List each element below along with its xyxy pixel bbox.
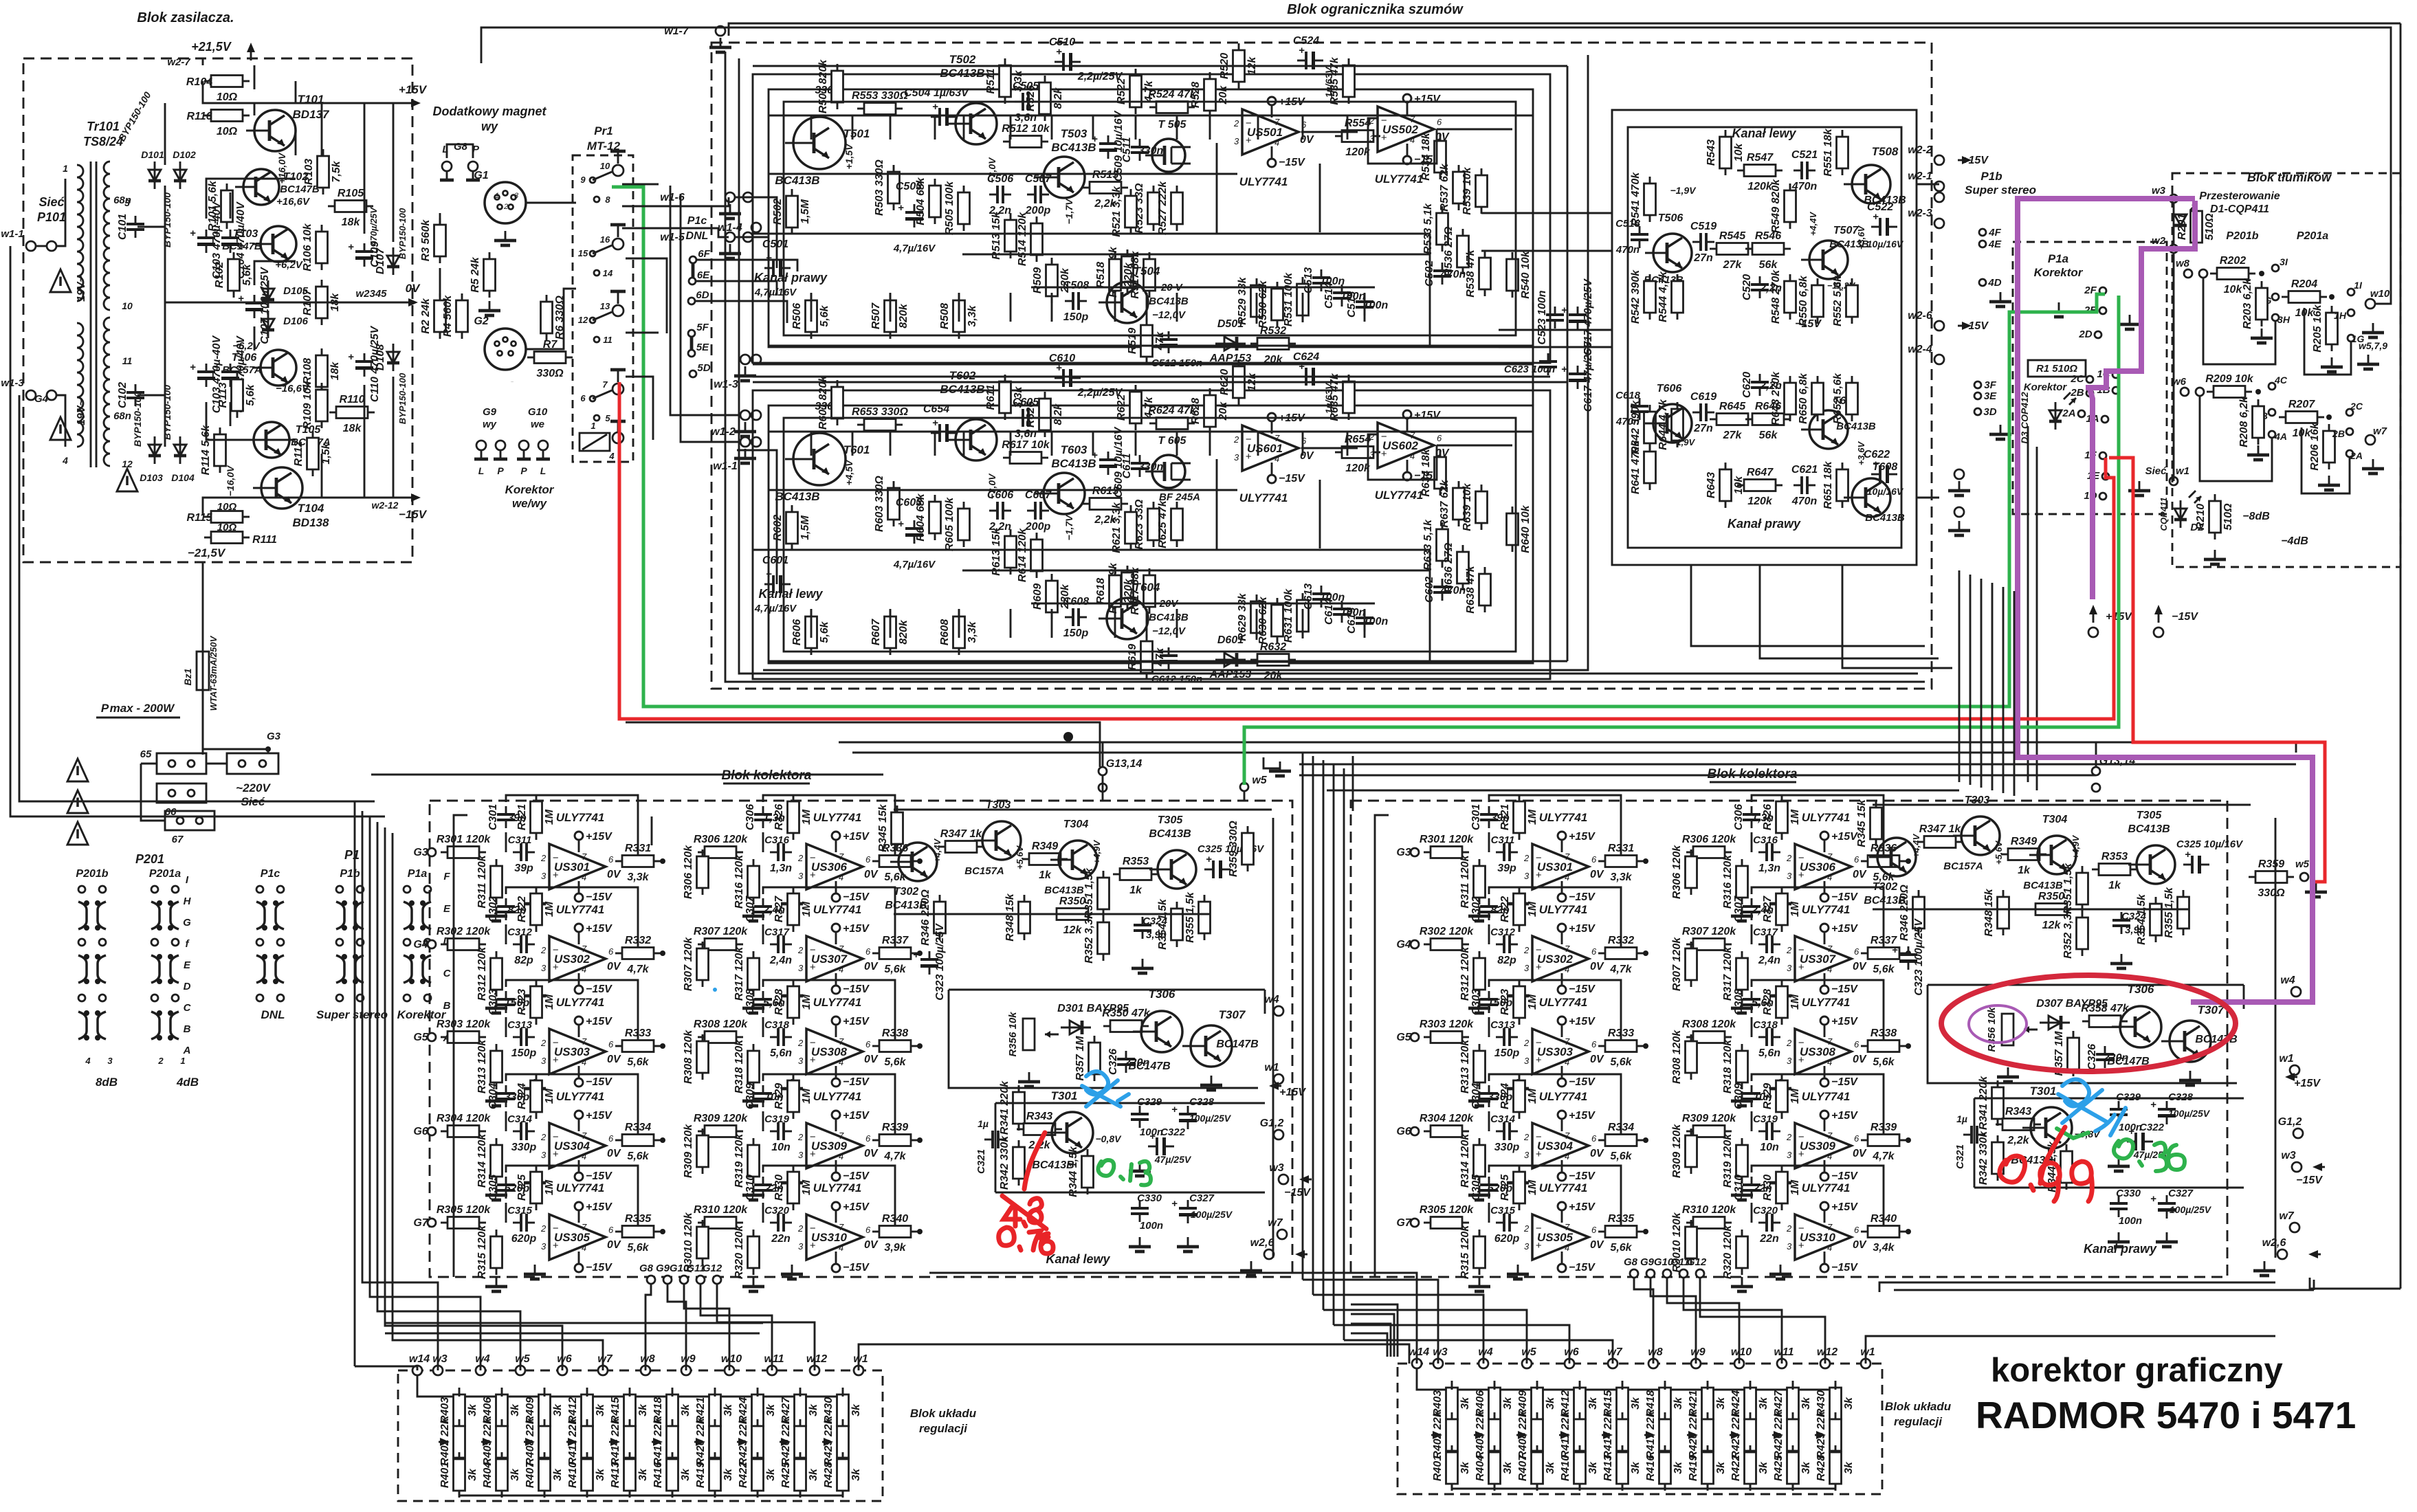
ground stage US301	[1468, 907, 1490, 921]
svg-text:+: +	[190, 227, 196, 239]
svg-text:0V: 0V	[864, 1054, 879, 1065]
wire w1-5 link	[734, 236, 769, 238]
svg-text:+3,6V: +3,6V	[1856, 225, 1866, 250]
resistor R522	[1116, 69, 1155, 114]
svg-text:R352 3,3k: R352 3,3k	[1083, 912, 1095, 964]
svg-text:Blok kolektora: Blok kolektora	[722, 768, 812, 783]
op-amp US310	[1786, 1201, 1867, 1274]
svg-text:T606: T606	[1657, 383, 1682, 394]
transistor T305	[1149, 850, 1196, 889]
wire stub low 5-1470	[1010, 293, 1012, 322]
resistor R620	[1219, 359, 1258, 405]
resistor R426	[1773, 1410, 1799, 1458]
svg-text:1M: 1M	[544, 1088, 555, 1104]
svg-text:R351 1,5k: R351 1,5k	[1083, 867, 1095, 919]
pin w9 regulacja	[681, 1366, 691, 1375]
svg-text:R553 330Ω: R553 330Ω	[852, 90, 908, 102]
resistor R311 shunt	[476, 854, 503, 908]
wire r103 up	[321, 103, 323, 155]
pin w7 right kol	[2290, 1223, 2299, 1232]
pin 1H	[2348, 309, 2354, 316]
svg-text:R545: R545	[1719, 230, 1746, 242]
pin 3E	[1974, 392, 1981, 399]
svg-text:7: 7	[1565, 1036, 1570, 1047]
pin w12 regulacja	[1820, 1359, 1830, 1368]
svg-text:T502: T502	[949, 53, 976, 66]
svg-text:2,4n: 2,4n	[769, 955, 792, 966]
svg-text:regulacji: regulacji	[919, 1422, 968, 1435]
resistor R110	[329, 394, 375, 434]
svg-text:R354 1,5k: R354 1,5k	[2136, 893, 2148, 945]
svg-text:−15V: −15V	[1569, 1262, 1596, 1274]
svg-text:2: 2	[540, 1038, 547, 1048]
svg-text:−: −	[1798, 852, 1805, 864]
svg-text:+: +	[1536, 869, 1542, 881]
svg-text:C520: C520	[1741, 274, 1753, 300]
svg-text:R544 4,7k: R544 4,7k	[1657, 271, 1669, 322]
resistor R429	[1815, 1410, 1842, 1458]
svg-text:R325: R325	[516, 1174, 528, 1201]
wire regulacja col 2	[544, 1395, 546, 1397]
svg-text:T302: T302	[1873, 881, 1898, 893]
svg-text:2: 2	[1523, 945, 1530, 955]
svg-text:7: 7	[839, 1222, 844, 1232]
svg-text:10Ω: 10Ω	[217, 522, 237, 533]
svg-text:w8: w8	[2176, 258, 2190, 269]
capacitor C308	[1733, 989, 1774, 1015]
junction dot mid sheet	[1063, 732, 1073, 742]
svg-text:WTAT-63mA/250V: WTAT-63mA/250V	[208, 635, 219, 711]
svg-text:BYP150-100: BYP150-100	[162, 192, 173, 247]
resistor R343	[1017, 1111, 1062, 1151]
svg-text:−: −	[810, 944, 816, 956]
pin w3 right kol	[2292, 1162, 2302, 1172]
resistor R306 120k	[1682, 834, 1736, 858]
resistor R538	[1465, 249, 1491, 297]
resistor R505	[944, 181, 970, 235]
ground R356	[1018, 1072, 1040, 1087]
capacitor C607	[1025, 489, 1052, 533]
wire -15V rail	[203, 498, 412, 515]
relay Pr1 coil	[580, 433, 610, 451]
junction out US308	[917, 1043, 923, 1049]
svg-text:0V: 0V	[1590, 869, 1604, 880]
svg-text:7: 7	[839, 944, 844, 954]
svg-text:R401: R401	[1432, 1455, 1444, 1481]
resistor R351	[2062, 863, 2088, 914]
resistor R612	[1002, 439, 1050, 464]
pin G7	[1411, 1219, 1419, 1227]
svg-text:47µ/25V: 47µ/25V	[1154, 1154, 1192, 1165]
capacitor C603	[898, 518, 923, 544]
svg-text:R332: R332	[1608, 935, 1634, 946]
svg-text:4,7k: 4,7k	[626, 964, 649, 975]
svg-text:3k: 3k	[1459, 1461, 1471, 1474]
junction out US301	[660, 858, 665, 864]
svg-text:R115: R115	[186, 512, 212, 524]
capacitor C507	[1025, 173, 1052, 216]
resistor R651 18k	[1822, 460, 1848, 509]
svg-text:R425: R425	[1773, 1454, 1785, 1481]
ground stage US306	[1731, 907, 1753, 921]
svg-text:3: 3	[798, 871, 804, 881]
wire -15V node bus	[1974, 1187, 2244, 1189]
transistor T506	[1645, 234, 1692, 272]
pin -15V p1a	[2154, 627, 2163, 637]
resistor R312 shunt	[476, 946, 503, 1001]
svg-text:R321: R321	[516, 804, 528, 830]
pin w3 regulacja	[1433, 1359, 1443, 1368]
resistor R515	[1083, 169, 1128, 210]
svg-text:200p: 200p	[1025, 205, 1051, 216]
jack L	[440, 162, 454, 180]
wire red trace 2 (1F to w5 of right channel)	[2109, 458, 2325, 882]
svg-text:+4,4V: +4,4V	[932, 838, 942, 863]
svg-text:w3: w3	[2152, 185, 2166, 197]
svg-text:5E: 5E	[696, 342, 709, 353]
capacitor C307	[1733, 896, 1774, 922]
svg-text:3: 3	[1234, 136, 1239, 146]
ground 3D	[1989, 425, 2011, 439]
wire feedback US305	[1489, 1166, 1621, 1232]
svg-text:−1,7V: −1,7V	[1063, 198, 1074, 225]
pin w1 regulacja	[1861, 1359, 1870, 1368]
svg-text:R539 10k: R539 10k	[1461, 166, 1473, 214]
svg-text:R209 10k: R209 10k	[2205, 373, 2253, 385]
wire 67 left	[141, 764, 165, 821]
svg-text:1M: 1M	[801, 1088, 813, 1104]
svg-text:3: 3	[541, 1150, 547, 1160]
resistor R402	[1432, 1410, 1458, 1458]
wire stub 5-1470	[1010, 115, 1012, 140]
svg-text:120k: 120k	[1345, 146, 1371, 158]
svg-text:+15V: +15V	[1831, 1016, 1858, 1027]
resistor R419	[1688, 1445, 1727, 1491]
resistor R638	[1465, 565, 1491, 613]
svg-text:1: 1	[63, 163, 68, 174]
pin w2-2	[1934, 155, 1944, 165]
wire green trace 1 (Pr1 to P1a 2F)	[612, 187, 2105, 707]
svg-text:3k: 3k	[1630, 1397, 1642, 1410]
svg-text:Korektor: Korektor	[505, 483, 555, 496]
resistor R340	[1861, 1213, 1906, 1254]
transistor T507	[1801, 241, 1848, 279]
svg-text:R324: R324	[516, 1083, 528, 1109]
svg-text:3: 3	[1524, 963, 1530, 973]
svg-text:1H: 1H	[2334, 310, 2347, 321]
svg-text:R346 220Ω: R346 220Ω	[920, 889, 931, 946]
capacitor C519	[1690, 221, 1717, 264]
svg-text:T106: T106	[232, 352, 257, 364]
resistor R307 120k right	[1671, 937, 1697, 991]
svg-text:+: +	[1536, 961, 1542, 973]
diode D106	[262, 311, 274, 338]
resistor R422	[738, 1452, 777, 1498]
svg-text:R326: R326	[1762, 804, 1774, 830]
pin 2C	[2346, 409, 2353, 416]
svg-text:R308 120k: R308 120k	[694, 1019, 748, 1030]
resistor R209	[2205, 373, 2253, 398]
svg-text:Blok zasilacza.: Blok zasilacza.	[137, 10, 234, 25]
ground w1-7	[709, 38, 731, 52]
wire T306 cell frame	[1928, 985, 2237, 1083]
svg-text:2B: 2B	[2332, 428, 2345, 439]
wire stub low 6-1395	[958, 609, 960, 638]
svg-text:R508: R508	[939, 303, 951, 329]
svg-text:+15V: +15V	[1569, 1110, 1596, 1122]
svg-text:7: 7	[1827, 1036, 1833, 1047]
pin G3	[1411, 848, 1419, 856]
svg-text:ULY7741: ULY7741	[1539, 811, 1588, 824]
svg-text:3k: 3k	[1800, 1461, 1812, 1474]
svg-text:w1-3: w1-3	[1, 377, 24, 389]
svg-text:39p: 39p	[514, 863, 533, 874]
svg-text:w7: w7	[597, 1353, 612, 1365]
svg-text:R316 120k: R316 120k	[733, 854, 745, 909]
resistor R408	[525, 1417, 551, 1465]
svg-text:R356 10k: R356 10k	[1986, 1007, 1998, 1052]
svg-text:R309 120k: R309 120k	[1682, 1113, 1736, 1124]
svg-text:5,6k: 5,6k	[1610, 1056, 1632, 1068]
wire w1 right to edge bus	[1866, 1336, 2275, 1364]
svg-text:R506: R506	[791, 303, 803, 329]
capacitor C610	[1055, 362, 1081, 387]
svg-text:C303: C303	[487, 989, 499, 1015]
svg-text:3k: 3k	[595, 1468, 606, 1481]
svg-text:R312 120k: R312 120k	[476, 946, 488, 1001]
wire fb join US305	[1488, 1203, 1490, 1223]
svg-text:−: −	[1536, 944, 1542, 956]
svg-text:R112: R112	[293, 441, 305, 466]
resistor R632	[1250, 641, 1296, 682]
svg-text:R105: R105	[338, 188, 364, 199]
svg-text:C323 100µ/25V: C323 100µ/25V	[934, 923, 946, 1001]
resistor R554	[1335, 118, 1380, 158]
wire top bus T section	[894, 809, 1272, 811]
resistor R331	[615, 843, 661, 883]
pin w4 regulacja	[476, 1366, 485, 1375]
resistor R113	[217, 373, 256, 418]
wire stub 5-1295	[890, 115, 892, 140]
pot R356	[2002, 1014, 2038, 1045]
svg-text:R547: R547	[1747, 152, 1774, 164]
wire stub 5-1360	[934, 115, 936, 140]
wire regulacja col 6	[1707, 1388, 1709, 1390]
resistor R338	[872, 1027, 918, 1068]
svg-text:C316: C316	[1753, 834, 1778, 846]
op-amp US502	[1369, 93, 1450, 166]
wire regulacja col 5	[672, 1395, 674, 1397]
wire second bus T section	[894, 913, 1210, 915]
wire stub 6-1652	[1135, 432, 1137, 456]
DIN socket G1	[485, 182, 526, 223]
svg-text:6: 6	[1854, 946, 1859, 957]
wire w1 left to right block	[859, 1344, 1409, 1370]
wire c100 down	[230, 402, 232, 426]
op-amp US303	[1523, 1016, 1604, 1088]
svg-text:18k: 18k	[329, 362, 341, 381]
svg-text:R320 120k: R320 120k	[733, 1225, 745, 1279]
ground + input US308	[1769, 1079, 1791, 1093]
svg-text:1,5M: 1,5M	[799, 199, 811, 224]
svg-text:6: 6	[1591, 946, 1597, 957]
wire frame channel Kana&#322; lewy	[753, 390, 1550, 679]
resistor R406	[1475, 1381, 1514, 1426]
svg-text:P201b: P201b	[76, 868, 108, 880]
svg-text:R404: R404	[1475, 1455, 1486, 1481]
wire stub 6-1402	[963, 432, 965, 456]
pin 3H	[2272, 314, 2279, 321]
wire rail d 5	[769, 173, 1237, 175]
svg-text:R613 15k: R613 15k	[991, 527, 1002, 575]
svg-text:Bz1: Bz1	[182, 668, 193, 685]
svg-text:3: 3	[1369, 449, 1375, 460]
capacitor C503	[898, 202, 923, 227]
pin G13,14 right b	[2092, 783, 2100, 792]
resistor R535	[1329, 56, 1355, 104]
junction out US302	[660, 950, 665, 956]
pin 4E	[1979, 241, 1986, 247]
svg-text:BC413B: BC413B	[940, 383, 984, 396]
resistor R318 shunt	[1722, 1039, 1748, 1093]
resistor R202	[2210, 255, 2255, 296]
svg-text:82p: 82p	[514, 955, 533, 966]
svg-text:3k: 3k	[552, 1468, 564, 1481]
wire regulacja bottom bus	[1452, 1488, 1835, 1490]
svg-text:470n: 470n	[1615, 244, 1640, 256]
pin 2D	[2095, 331, 2101, 338]
svg-text:7: 7	[582, 1131, 587, 1141]
capacitor C307	[744, 896, 785, 922]
svg-text:R629 33k: R629 33k	[1237, 592, 1248, 641]
wire primary bottom	[56, 395, 65, 447]
junction G3	[265, 746, 271, 752]
svg-text:ULY7741: ULY7741	[1802, 903, 1851, 916]
svg-text:w4: w4	[2280, 975, 2295, 986]
wire regulacja top bus	[417, 1375, 843, 1397]
svg-text:R531 100k: R531 100k	[1283, 272, 1294, 326]
wire inner rect channel 5	[784, 102, 1516, 335]
svg-text:w1: w1	[2176, 465, 2189, 477]
svg-text:100n: 100n	[1140, 1220, 1163, 1232]
resistor R530	[1257, 280, 1283, 328]
svg-text:+: +	[810, 1148, 816, 1160]
svg-text:R345 15k: R345 15k	[877, 803, 889, 852]
svg-text:+15V: +15V	[1831, 831, 1858, 843]
svg-text:R618: R618	[1095, 578, 1107, 604]
svg-text:−: −	[1798, 1223, 1805, 1234]
pin w1-1	[26, 241, 36, 251]
svg-text:T302: T302	[894, 886, 919, 898]
svg-text:BC413B: BC413B	[775, 490, 819, 503]
svg-text:BC157A: BC157A	[222, 364, 262, 376]
transistor T304	[2029, 836, 2076, 874]
svg-text:R103: R103	[303, 159, 315, 185]
resistor R348	[1004, 893, 1030, 941]
svg-text:R5 24k: R5 24k	[470, 256, 481, 293]
wire right edge bus right kol	[2275, 818, 2277, 1258]
resistor R207	[2279, 399, 2324, 439]
transistor T306	[2112, 1006, 2161, 1047]
resistor R611	[985, 375, 1024, 420]
svg-text:R518: R518	[1095, 262, 1107, 288]
svg-text:R205 16k: R205 16k	[2312, 304, 2324, 352]
svg-text:R413: R413	[1602, 1455, 1614, 1481]
capacitor C601	[764, 568, 791, 593]
junction out US307	[917, 950, 923, 956]
ground + input US310	[781, 1265, 803, 1279]
svg-text:12k: 12k	[2042, 920, 2062, 931]
wire 6E loop	[696, 281, 777, 296]
resistor R502	[772, 189, 811, 234]
svg-text:R534 18k: R534 18k	[1420, 132, 1432, 180]
capacitor C622	[1871, 458, 1897, 483]
wire fb join US310	[1751, 1203, 1753, 1223]
svg-text:R317 120k: R317 120k	[733, 946, 745, 1001]
svg-text:6: 6	[865, 946, 871, 957]
wire frame output block	[1612, 110, 1917, 565]
wire G13,14 link left	[1102, 742, 1104, 767]
svg-text:R116: R116	[186, 111, 212, 122]
ground w7	[2362, 459, 2384, 474]
resistor R539	[1461, 166, 1488, 214]
svg-text:4F: 4F	[1988, 227, 2001, 238]
svg-text:BC147B: BC147B	[222, 241, 262, 252]
ground w5 left	[1269, 761, 1291, 776]
resistor R621	[1111, 502, 1137, 553]
resistor R411	[1560, 1411, 1586, 1458]
svg-text:2: 2	[1786, 1038, 1792, 1048]
svg-text:C613: C613	[1303, 583, 1314, 610]
svg-text:C308: C308	[744, 989, 756, 1015]
wire rail b 5	[753, 233, 1430, 235]
svg-text:R330: R330	[773, 1175, 785, 1201]
wire fb join US309	[1751, 1111, 1753, 1131]
svg-text:P1c: P1c	[687, 215, 707, 227]
svg-text:100µ/25V: 100µ/25V	[1191, 1209, 1233, 1220]
ground stage US304	[1468, 1186, 1490, 1200]
resistor R413	[610, 1452, 649, 1498]
svg-text:4: 4	[1827, 1057, 1832, 1067]
wire regulacja col 8	[1792, 1388, 1794, 1390]
wire stub 5-1180	[810, 115, 813, 140]
svg-text:T104: T104	[298, 502, 324, 515]
svg-text:+15V: +15V	[1569, 831, 1596, 843]
svg-text:R502: R502	[772, 199, 784, 225]
svg-text:R355 1,5k: R355 1,5k	[1184, 891, 1196, 943]
resistor R648 270k	[1770, 371, 1796, 425]
svg-text:C307: C307	[744, 896, 756, 922]
svg-text:−15V: −15V	[1569, 891, 1596, 903]
svg-text:C302: C302	[487, 896, 499, 922]
pin G11 right	[1679, 1269, 1688, 1278]
svg-text:+: +	[2185, 849, 2191, 860]
svg-text:R333: R333	[625, 1027, 651, 1039]
svg-text:R330: R330	[1762, 1175, 1774, 1201]
wire title underline right	[1710, 781, 1796, 783]
svg-text:w3: w3	[1433, 1346, 1447, 1358]
wire right mid verticals	[2027, 426, 2029, 782]
resistor R342	[999, 1135, 1025, 1190]
svg-text:330Ω: 330Ω	[536, 368, 564, 379]
ground stage US310	[1731, 1277, 1753, 1291]
svg-text:w12: w12	[806, 1353, 827, 1365]
svg-text:R643: R643	[1706, 472, 1717, 498]
ground stage US303	[485, 1091, 507, 1106]
wire stub 5-1402	[963, 115, 965, 140]
capacitor C327	[2150, 1193, 2176, 1219]
svg-text:2: 2	[1233, 434, 1239, 445]
